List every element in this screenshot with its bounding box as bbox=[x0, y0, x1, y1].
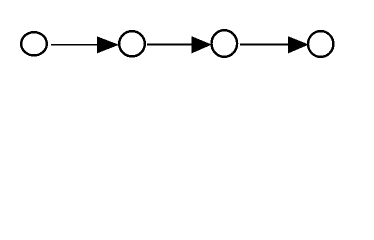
wire arrow 1 bbox=[51, 37, 118, 53]
wire arrow 2 bbox=[147, 37, 211, 53]
wire arrow 3 bbox=[240, 37, 308, 53]
node 3 bbox=[212, 30, 238, 57]
node 1 bbox=[21, 32, 47, 55]
node 4 bbox=[308, 31, 333, 57]
node 2 bbox=[119, 31, 145, 56]
